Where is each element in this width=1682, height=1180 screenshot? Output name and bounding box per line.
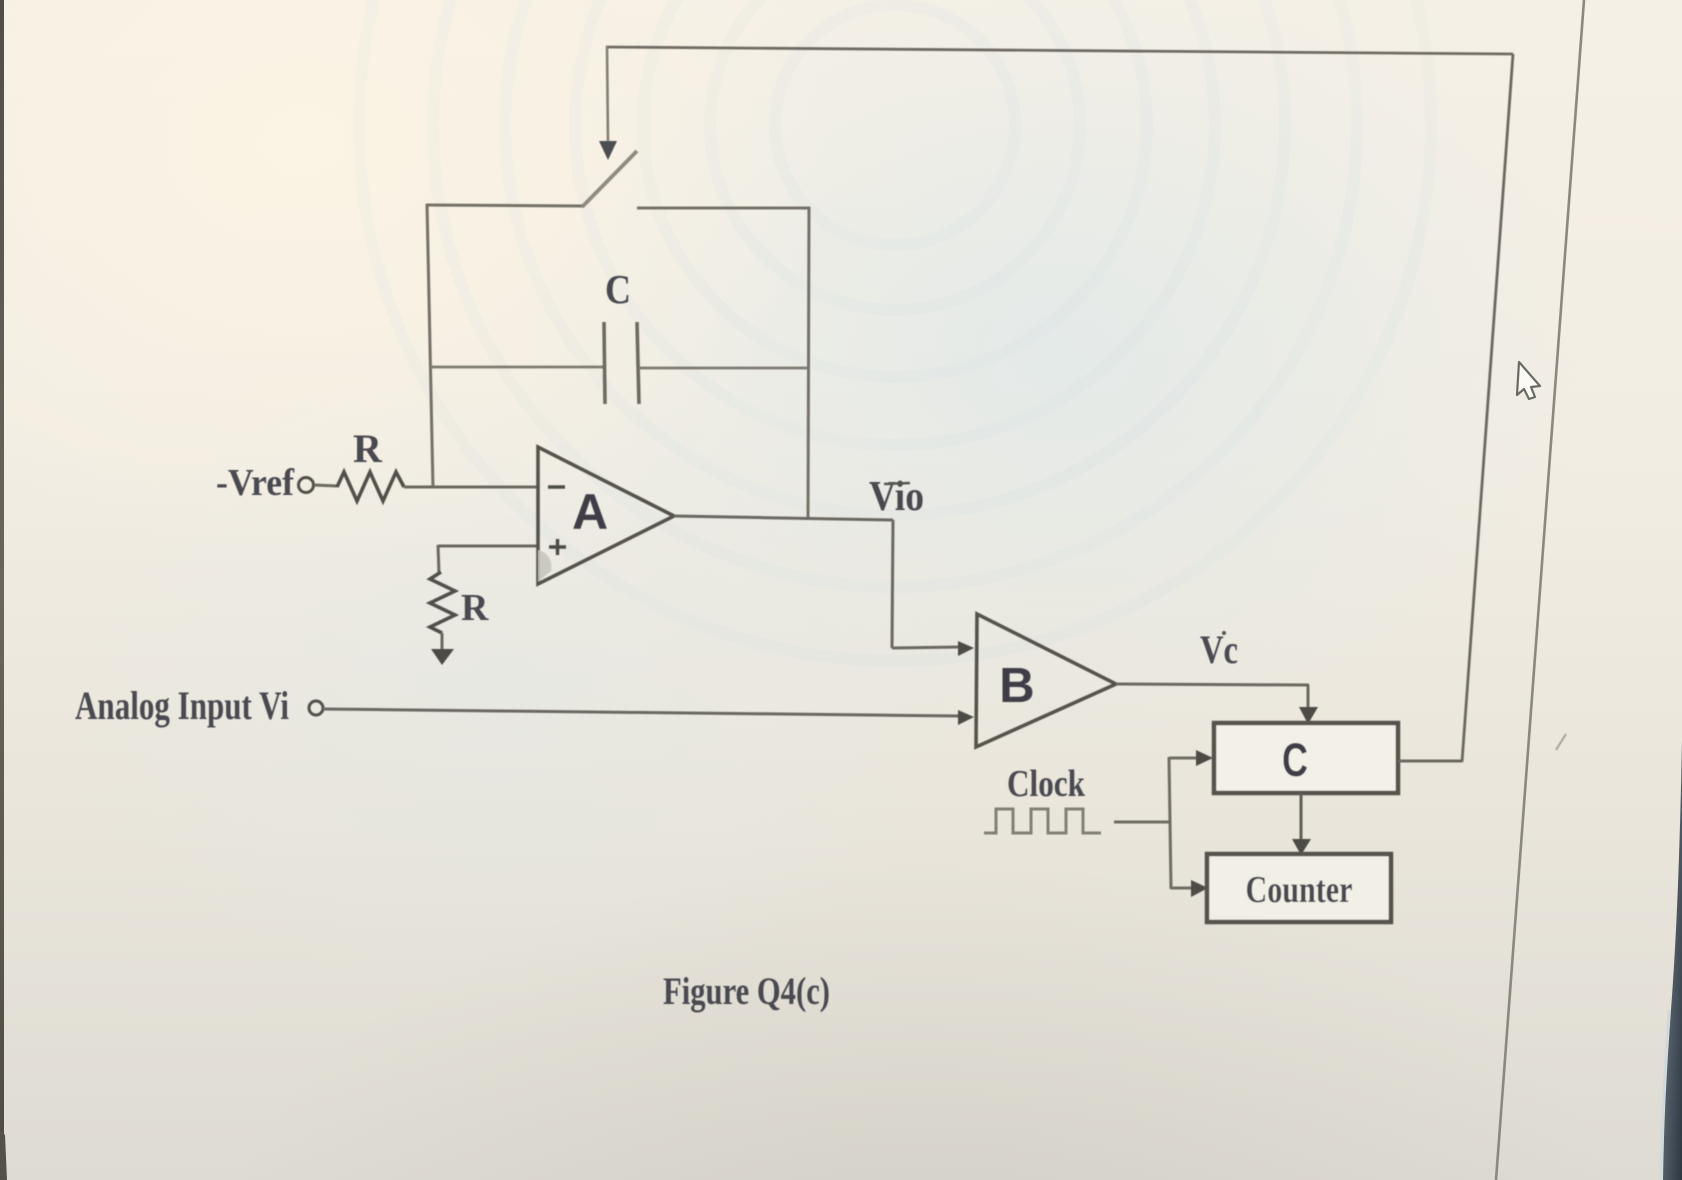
svg-text:R: R [353,426,383,471]
clock bus vertical [1169,757,1171,889]
svg-text:Figure Q4(c): Figure Q4(c) [663,970,830,1013]
wire: -Vref terminal to R [314,485,337,486]
arrowhead into C left [1196,750,1213,766]
wire: top feedback horizontal [606,47,1513,54]
wire: capacitor right lead [639,367,809,370]
ground arrow [431,649,454,665]
wire: C block output to feedback riser [1398,760,1462,763]
wire: comparator output Vc [1116,684,1309,685]
svg-text:Vio: Vio [869,474,924,520]
svg-text:C: C [605,266,631,312]
arrowhead into C top [1299,707,1318,724]
bottom-right wedge highlight edge [1661,1010,1669,1180]
wire: bus to Counter [1171,887,1192,890]
Counter block [1207,854,1391,922]
watermark swirl arcs [359,0,1431,661]
wire: R2 to ground arrow [441,633,444,650]
svg-text:Counter: Counter [1246,869,1353,911]
wire: bus to C block [1169,757,1197,760]
Vc dot mark [1222,631,1226,635]
capacitor C left plate [604,322,605,404]
photo artifact near plus input [538,550,551,582]
wire: Vio corner drop [892,520,893,648]
wire: Vc drop to control block [1307,685,1310,709]
input terminal node (Vi) [309,701,323,715]
wire: top loop right horizontal [637,207,810,210]
control block C [1214,723,1398,793]
op-amp A plus sign [549,539,566,555]
wire: op-amp A output [674,516,893,520]
arrowhead onto switch [599,141,617,160]
comparator U2 (B) triangle [976,614,1116,747]
switch S1 blade [582,151,637,207]
svg-text:Analog Input Vi: Analog Input Vi [75,683,289,728]
svg-text:-Vref: -Vref [216,462,295,504]
wire: non-inverting drop [438,545,439,573]
clock waveform [984,809,1101,833]
svg-text:Clock: Clock [1007,763,1086,805]
svg-text:A: A [572,484,608,540]
wire: capacitor left lead [430,366,604,369]
wire: left branch vertical [427,204,433,488]
scratch mark [1556,734,1566,750]
wire: feedback drop to switch [607,46,608,142]
wire: clock to bus [1114,821,1170,824]
resistor R1 zigzag [337,472,404,501]
mouse cursor [1517,362,1540,399]
svg-text:B: B [999,659,1034,713]
arrowhead into Counter top [1292,839,1311,855]
wire: C to Counter vertical [1300,793,1303,840]
wire: R1 to inverting input [404,486,538,489]
capacitor C right plate [637,322,639,404]
photo bottom-left corner darkening [0,1130,7,1180]
wire: analog input to comparator [323,709,960,716]
wire: right branch vertical [808,207,809,519]
wire: non-inverting input horizontal [438,545,538,548]
op-amp U1 (A) triangle [538,447,674,584]
svg-text:Vc: Vc [1200,627,1238,672]
arrowhead into Counter left [1191,880,1208,897]
resistor R2 zigzag [430,572,455,633]
screen right edge line [1496,0,1584,1180]
photo left edge shadow [0,0,4,1180]
input terminal node (-Vref) [299,478,314,493]
svg-text:C: C [1282,733,1308,786]
arrowhead lower input of B [958,710,974,725]
wire: to comparator upper input [892,647,960,648]
op-amp A minus sign [548,485,565,489]
bottom-right dark wedge [1663,740,1682,1180]
arrowhead upper input of B [958,641,974,656]
wire: feedback riser [1462,54,1513,762]
svg-text:R: R [461,587,489,629]
Vio overbar mark [884,483,910,484]
wire: top loop left horizontal [426,205,582,206]
